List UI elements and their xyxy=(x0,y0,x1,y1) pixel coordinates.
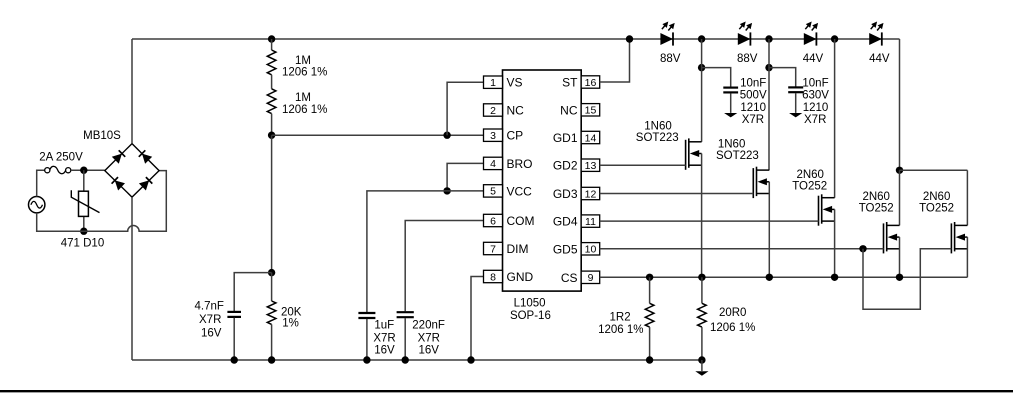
wire xyxy=(83,170,85,191)
junction xyxy=(268,356,275,363)
transistor Q2 1N60 xyxy=(752,168,754,198)
wire xyxy=(71,169,105,171)
svg-text:15: 15 xyxy=(585,105,597,117)
pin 1 VS xyxy=(484,76,503,88)
junction xyxy=(766,274,773,281)
pin 3 CP xyxy=(484,129,503,141)
junction xyxy=(626,35,633,42)
bridge diode D2 xyxy=(142,154,152,164)
wire xyxy=(272,134,484,136)
svg-text:GD3: GD3 xyxy=(553,187,578,201)
transistor Q3 2N60 xyxy=(818,196,820,226)
fuse F1 xyxy=(45,168,50,173)
varistor RV1 471 D10 xyxy=(79,191,89,216)
junction xyxy=(896,167,903,174)
svg-text:TO252: TO252 xyxy=(919,203,954,215)
wire xyxy=(966,170,968,225)
junction xyxy=(698,356,705,363)
junction xyxy=(698,274,705,281)
wire xyxy=(404,318,406,360)
svg-text:44V: 44V xyxy=(869,53,890,65)
bridge diode D4 xyxy=(139,180,149,190)
wire xyxy=(600,164,686,166)
border line xyxy=(0,390,1013,392)
wire xyxy=(834,209,836,277)
svg-text:4.7nF: 4.7nF xyxy=(194,301,223,313)
bridge diode D3 xyxy=(115,180,125,190)
svg-text:1M: 1M xyxy=(295,92,311,104)
svg-text:220nF: 220nF xyxy=(412,320,445,332)
wire xyxy=(132,38,900,40)
wire xyxy=(834,39,836,198)
svg-text:16V: 16V xyxy=(418,345,439,357)
svg-text:11: 11 xyxy=(585,216,596,228)
svg-text:1N60: 1N60 xyxy=(644,121,672,133)
wire xyxy=(471,277,484,361)
pin 12 GD3 xyxy=(581,187,600,199)
op-amp U1 L1050 body xyxy=(503,70,582,291)
ground xyxy=(724,113,737,117)
svg-text:CS: CS xyxy=(561,271,578,285)
svg-text:1N60: 1N60 xyxy=(718,139,746,151)
svg-text:2: 2 xyxy=(490,105,496,117)
svg-text:1210: 1210 xyxy=(803,102,829,114)
pin 8 GND xyxy=(484,270,503,282)
wire xyxy=(900,169,968,171)
wire xyxy=(600,248,884,250)
svg-text:44V: 44V xyxy=(803,53,824,65)
wire xyxy=(366,319,368,360)
svg-text:1: 1 xyxy=(490,77,496,89)
svg-text:L1050: L1050 xyxy=(514,298,546,310)
junction xyxy=(765,64,772,71)
LED D6 88V xyxy=(738,33,751,45)
LED D7 44V xyxy=(804,33,817,45)
wire xyxy=(271,135,273,272)
svg-text:20R0: 20R0 xyxy=(719,307,747,319)
wire xyxy=(600,276,968,278)
svg-text:MB10S: MB10S xyxy=(83,130,121,142)
wire xyxy=(649,277,651,303)
wire xyxy=(768,182,770,277)
svg-text:GD4: GD4 xyxy=(553,215,578,229)
wire xyxy=(132,359,702,361)
svg-text:SOP-16: SOP-16 xyxy=(510,310,551,322)
wire xyxy=(83,216,85,231)
svg-text:88V: 88V xyxy=(660,53,681,65)
svg-text:VS: VS xyxy=(507,76,523,90)
junction xyxy=(698,35,705,42)
junction xyxy=(765,35,772,42)
pin 5 VCC xyxy=(484,185,503,197)
wire xyxy=(899,237,901,277)
pin 4 BRO xyxy=(484,157,503,169)
junction xyxy=(859,245,866,252)
junction xyxy=(443,132,450,139)
wire xyxy=(271,39,273,50)
svg-text:16: 16 xyxy=(585,77,597,89)
transistor Q5 2N60 xyxy=(950,223,952,253)
svg-text:88V: 88V xyxy=(737,53,758,65)
wire xyxy=(701,277,703,303)
wire xyxy=(271,324,273,360)
svg-text:2N60: 2N60 xyxy=(796,169,824,181)
svg-text:1206 1%: 1206 1% xyxy=(598,324,643,336)
resistor R2 1M xyxy=(267,89,276,114)
junction xyxy=(363,356,370,363)
ground xyxy=(695,371,708,375)
wire xyxy=(405,221,483,312)
resistor R1 1M xyxy=(267,50,276,75)
wire xyxy=(131,39,133,144)
wire xyxy=(367,191,484,312)
capacitor C2 1uF xyxy=(358,312,375,314)
svg-text:16V: 16V xyxy=(374,345,395,357)
svg-text:10nF: 10nF xyxy=(802,78,828,90)
wire xyxy=(899,170,901,225)
pin 13 GD2 xyxy=(581,159,600,171)
junction xyxy=(646,274,653,281)
svg-text:COM: COM xyxy=(507,214,535,228)
wire xyxy=(768,39,770,170)
wire xyxy=(701,327,703,360)
junction xyxy=(231,356,238,363)
wire xyxy=(37,170,45,196)
junction xyxy=(831,274,838,281)
svg-text:1uF: 1uF xyxy=(374,320,394,332)
svg-text:10: 10 xyxy=(585,244,597,256)
bridge rectifier MB10S frame xyxy=(105,144,159,198)
wire xyxy=(271,114,273,136)
wire xyxy=(600,220,819,222)
svg-text:10nF: 10nF xyxy=(740,78,766,90)
svg-text:ST: ST xyxy=(562,76,578,90)
svg-text:471 D10: 471 D10 xyxy=(61,238,104,250)
capacitor C1 4.7nF xyxy=(227,311,241,313)
transistor Q1 1N60 xyxy=(685,140,687,170)
resistor R5 20R0 xyxy=(698,303,707,327)
svg-text:X7R: X7R xyxy=(373,332,395,344)
AC source V1 xyxy=(29,197,45,213)
capacitor C4 10nF 500V xyxy=(723,86,738,88)
svg-text:500V: 500V xyxy=(740,90,767,102)
junction xyxy=(443,187,450,194)
wire xyxy=(271,273,273,301)
svg-text:2N60: 2N60 xyxy=(862,191,890,203)
svg-text:9: 9 xyxy=(588,272,594,284)
wire Q5 gate route xyxy=(863,249,951,309)
svg-text:1210: 1210 xyxy=(740,102,766,114)
wire xyxy=(701,154,703,278)
svg-text:1%: 1% xyxy=(282,318,299,330)
svg-text:GD2: GD2 xyxy=(553,159,578,173)
resistor R4 1R2 xyxy=(645,303,654,327)
svg-text:TO252: TO252 xyxy=(792,180,827,192)
svg-text:4: 4 xyxy=(490,158,496,170)
svg-text:GND: GND xyxy=(507,270,534,284)
pin 14 GD1 xyxy=(581,131,600,143)
junction xyxy=(646,356,653,363)
pin 9 CS xyxy=(581,271,600,283)
svg-text:6: 6 xyxy=(490,215,496,227)
bridge diode D1 xyxy=(112,154,122,164)
svg-text:2A 250V: 2A 250V xyxy=(39,151,83,163)
svg-text:3: 3 xyxy=(490,130,496,142)
svg-text:X7R: X7R xyxy=(742,114,764,126)
svg-text:BRO: BRO xyxy=(507,157,533,171)
wire xyxy=(447,82,483,135)
svg-text:X7R: X7R xyxy=(804,114,826,126)
svg-text:GD5: GD5 xyxy=(553,242,578,256)
ground xyxy=(789,113,802,117)
junction xyxy=(80,228,87,235)
svg-text:DIM: DIM xyxy=(507,242,529,256)
svg-text:5: 5 xyxy=(490,186,496,198)
wire xyxy=(234,273,271,311)
transistor Q4 2N60 xyxy=(883,223,885,253)
junction xyxy=(402,356,409,363)
wire xyxy=(649,327,651,360)
wire xyxy=(701,39,703,142)
pin 16 ST xyxy=(581,76,600,88)
wire xyxy=(37,171,167,232)
wire xyxy=(702,68,731,87)
pin 10 GD5 xyxy=(581,243,600,255)
wire xyxy=(131,197,133,360)
wire xyxy=(966,237,968,277)
svg-text:1206 1%: 1206 1% xyxy=(282,67,327,79)
wire xyxy=(795,93,797,113)
svg-text:1M: 1M xyxy=(295,55,311,67)
wire xyxy=(447,163,483,191)
wire xyxy=(730,93,732,113)
svg-text:NC: NC xyxy=(507,104,525,118)
svg-text:VCC: VCC xyxy=(507,184,533,198)
svg-text:630V: 630V xyxy=(802,90,829,102)
capacitor C3 220nF xyxy=(397,311,414,313)
wire xyxy=(600,39,630,82)
wire xyxy=(600,193,754,195)
pin 7 DIM xyxy=(484,242,503,254)
pin 6 COM xyxy=(484,214,503,226)
svg-text:16V: 16V xyxy=(201,328,222,340)
pin 11 GD4 xyxy=(581,215,600,227)
svg-text:SOT223: SOT223 xyxy=(716,150,759,162)
wire xyxy=(769,68,796,87)
wire xyxy=(271,75,273,89)
LED D5 88V xyxy=(660,33,673,45)
svg-text:SOT223: SOT223 xyxy=(636,132,679,144)
pin 15 NC xyxy=(581,104,600,116)
junction xyxy=(831,35,838,42)
junction xyxy=(268,35,275,42)
svg-text:GD1: GD1 xyxy=(553,131,578,145)
wire xyxy=(701,360,703,371)
svg-text:2N60: 2N60 xyxy=(923,191,951,203)
resistor R3 20K xyxy=(267,301,276,324)
junction node CP xyxy=(268,132,275,139)
wire xyxy=(899,39,901,170)
svg-text:1206 1%: 1206 1% xyxy=(282,104,327,116)
svg-text:NC: NC xyxy=(560,103,578,117)
junction xyxy=(80,167,87,174)
junction xyxy=(698,64,705,71)
svg-text:12: 12 xyxy=(585,188,597,200)
svg-text:1206 1%: 1206 1% xyxy=(710,322,755,334)
svg-text:13: 13 xyxy=(585,160,597,172)
capacitor C5 10nF 630V xyxy=(788,86,803,88)
svg-text:7: 7 xyxy=(490,243,496,255)
junction xyxy=(896,274,903,281)
svg-text:8: 8 xyxy=(490,271,496,283)
junction xyxy=(268,269,275,276)
junction xyxy=(467,356,474,363)
pin 2 NC xyxy=(484,104,503,116)
LED D8 44V xyxy=(869,33,882,45)
svg-text:TO252: TO252 xyxy=(859,203,894,215)
wire xyxy=(233,318,235,360)
svg-text:1R2: 1R2 xyxy=(610,311,631,323)
svg-text:CP: CP xyxy=(507,129,524,143)
svg-text:X7R: X7R xyxy=(199,314,221,326)
svg-text:14: 14 xyxy=(585,132,597,144)
svg-text:X7R: X7R xyxy=(418,332,440,344)
